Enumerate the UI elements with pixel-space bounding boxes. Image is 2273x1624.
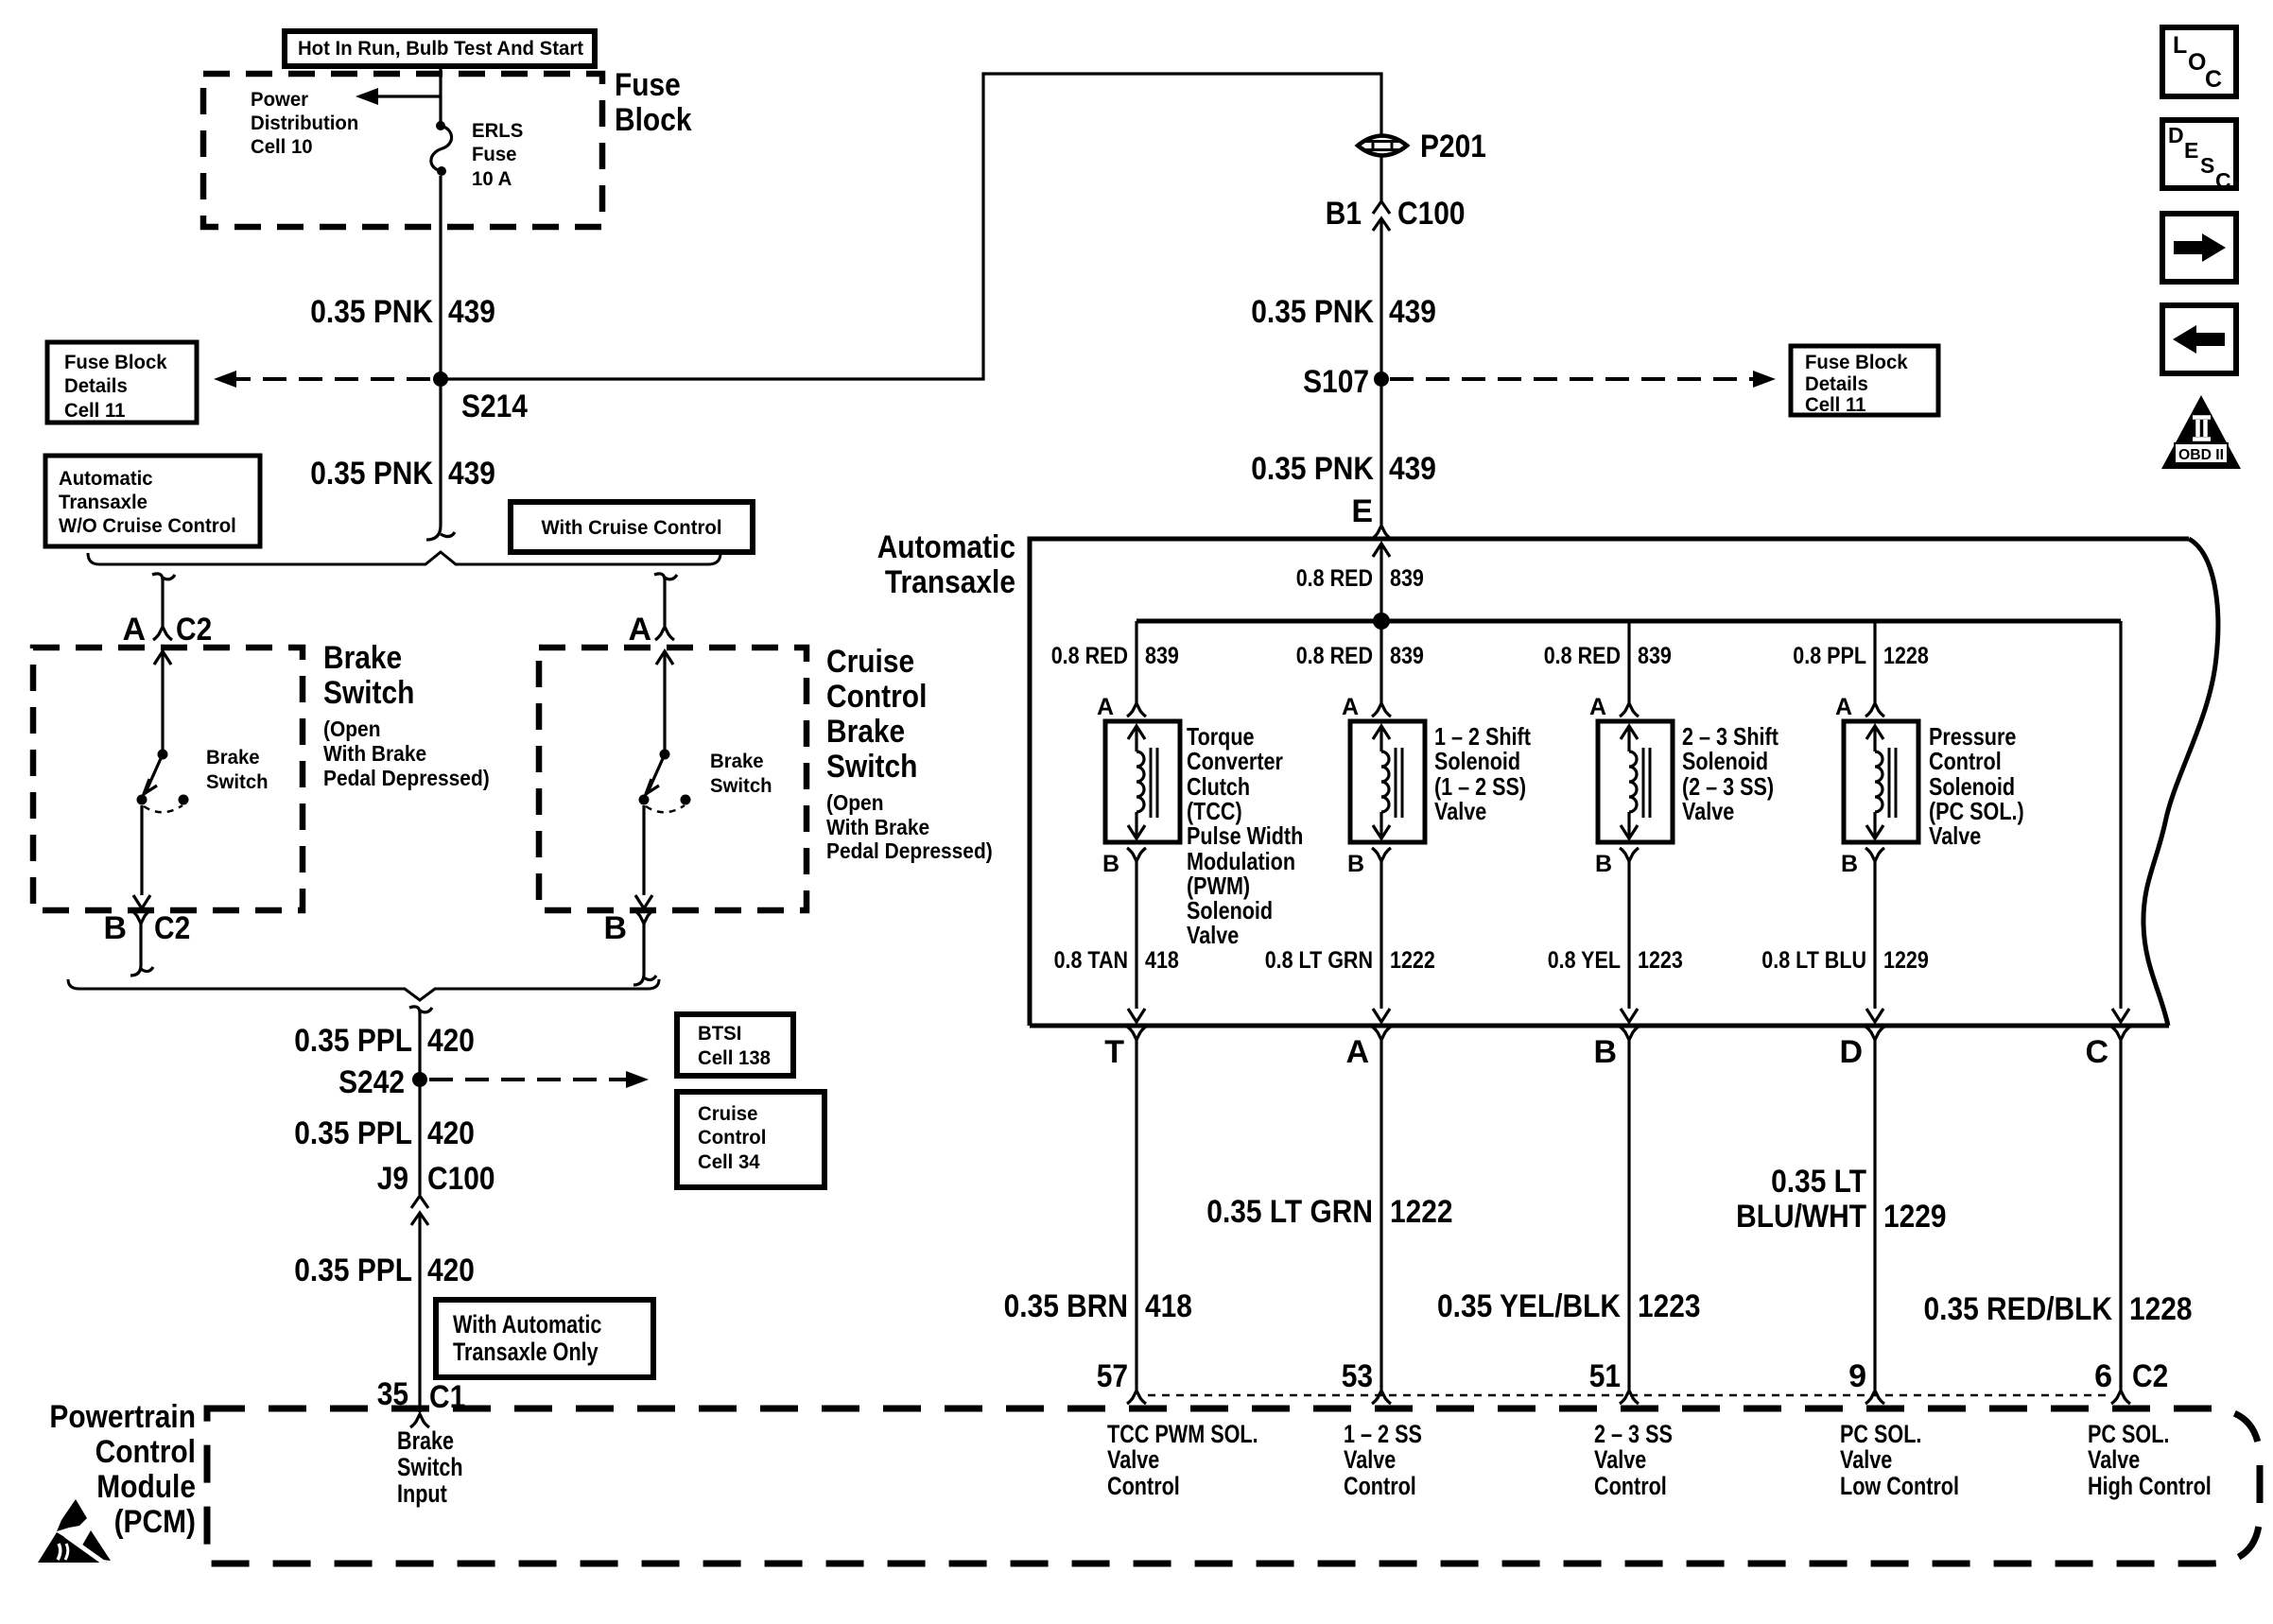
svg-text:Control: Control [1107,1472,1180,1500]
svg-text:B: B [603,910,627,946]
svg-text:Brake: Brake [323,640,402,676]
connector B (right) [603,910,653,946]
svg-text:Switch: Switch [826,749,917,785]
connector B (transaxle bottom) [1593,1027,1639,1070]
pin 51 [1589,1358,1639,1404]
svg-text:W/O Cruise Control: W/O Cruise Control [59,515,236,537]
icon: back arrow box [2162,305,2236,373]
label: Brake Switch Input [397,1426,463,1508]
wire: right branch bottom w/ hook [633,924,656,985]
box: With Cruise Control [511,502,753,552]
dashed ref arrow: S214 to Fuse Block Details [214,371,430,388]
svg-text:Control: Control [95,1434,196,1470]
svg-text:Brake: Brake [710,751,764,772]
automatic transaxle box [1030,539,2218,1026]
solenoid: TCC PWM valve [1105,721,1180,842]
brake switch (left): lower contact [137,795,147,805]
svg-text:418: 418 [1145,947,1179,974]
cruise brake switch: wire A-side w/ up arrow [656,651,673,750]
svg-text:Power: Power [251,89,308,111]
label: 0.8 PPL 1228 [1793,643,1929,669]
svg-text:Switch: Switch [710,775,772,797]
svg-text:0.35 PNK: 0.35 PNK [310,456,433,492]
svg-text:839: 839 [1390,643,1424,669]
wire: fuse to S214 [439,176,442,379]
svg-text:Valve: Valve [1344,1445,1396,1474]
svg-text:(PCM): (PCM) [114,1504,196,1540]
label: 2-3 SS Valve Control [1594,1420,1673,1500]
svg-text:Valve: Valve [1434,797,1486,825]
svg-text:Transaxle: Transaxle [59,492,147,513]
pin A (TCC) [1097,694,1146,720]
label: 0.8 LT BLU 1229 [1761,947,1929,974]
label: 0.35 RED/BLK 1228 [1924,1291,2193,1327]
svg-text:Valve: Valve [1187,921,1239,949]
brace: branch split [88,552,720,564]
desc: Torque Converter Clutch (TCC) PWM Solenoid Valve [1187,722,1303,949]
label: 0.8 RED 839 (1-2) [1296,643,1424,669]
brake switch (left): travel arc [144,805,182,812]
box: Fuse Block Details Cell 11 (right) [1791,346,1938,416]
svg-text:Valve: Valve [1107,1445,1159,1474]
svg-text:Switch: Switch [206,771,269,793]
wire: C100 to S107 [1379,218,1382,379]
connector pin 35 C1 [377,1376,466,1427]
svg-text:S107: S107 [1303,364,1369,400]
svg-text:C2: C2 [154,910,190,946]
brake switch (left): upper contact [158,750,168,760]
wire: S214 down to branch brace w/ hook [426,387,455,540]
svg-text:E: E [2184,138,2198,163]
svg-text:High Control: High Control [2088,1472,2212,1500]
svg-text:Converter: Converter [1187,747,1283,775]
label: Fuse Block [615,67,692,138]
connector A C2 (left) [122,612,212,648]
svg-text:Brake: Brake [206,747,260,769]
icon: forward arrow box [2162,214,2236,282]
dashed ref arrow: S107 to Fuse Block Details [1390,371,1776,388]
splice S107 [1303,364,1389,400]
label: 0.35 BRN 418 [1004,1288,1192,1324]
svg-text:1223: 1223 [1638,1288,1701,1324]
svg-text:With Cruise Control: With Cruise Control [542,517,722,539]
svg-text:10 A: 10 A [472,168,512,190]
svg-text:A: A [1345,1034,1369,1070]
svg-text:0.35 BRN: 0.35 BRN [1004,1288,1128,1324]
svg-text:Module: Module [96,1469,196,1505]
label: 0.8 LT GRN 1222 [1265,947,1435,974]
svg-text:S242: S242 [338,1064,405,1100]
svg-text:Control: Control [1594,1472,1667,1500]
brake switch (left): blade [147,754,163,790]
label: 0.35 PPL 420 (below S242) [294,1115,475,1151]
svg-text:Cell 138: Cell 138 [698,1047,771,1069]
pin B (2-3 SS) [1595,848,1639,877]
brake switch dashed box (left) [33,648,303,910]
svg-text:Valve: Valve [1594,1445,1646,1474]
label: 0.8 RED 839 (2-3) [1544,643,1672,669]
svg-text:1223: 1223 [1638,947,1683,974]
svg-text:Details: Details [64,375,128,397]
svg-text:Pulse Width: Pulse Width [1187,821,1303,850]
connector A (right) [628,612,674,648]
wire: C to PCM [2119,1040,2122,1390]
connector J9 C100 [377,1161,495,1225]
svg-text:Pedal Depressed): Pedal Depressed) [323,766,490,790]
svg-text:(Open: (Open [826,790,884,815]
svg-text:Brake: Brake [826,714,905,750]
pin B (1-2 SS) [1347,848,1391,877]
svg-text:Fuse Block: Fuse Block [64,352,167,373]
pin 9 [1848,1358,1884,1404]
cruise brake switch: travel arc [646,805,685,812]
svg-text:0.8 TAN: 0.8 TAN [1054,947,1128,974]
label: Brake Switch (inside left box) [206,747,269,793]
desc: 2-3 Shift Solenoid Valve [1682,722,1778,825]
cruise brake switch: travel dot [681,795,691,805]
wire: P201 to C100 [1379,157,1382,201]
svg-text:Valve: Valve [1929,821,1981,850]
svg-text:Brake: Brake [397,1426,454,1455]
svg-text:Cruise: Cruise [826,644,914,680]
pin B (PC SOL) [1841,848,1884,877]
svg-text:0.8 RED: 0.8 RED [1544,643,1621,669]
svg-text:439: 439 [448,456,495,492]
label: Automatic Transaxle [877,529,1015,600]
svg-text:0.8 YEL: 0.8 YEL [1548,947,1621,974]
solenoid: 1-2 shift valve [1350,721,1425,842]
svg-text:Control: Control [826,679,927,715]
svg-text:Control: Control [1929,747,2002,775]
label: PC SOL. Valve High Control [2088,1420,2212,1500]
dotted connector row line [1148,1394,2109,1397]
brake switch (left): travel dot [179,795,189,805]
splice S214 [433,371,528,424]
svg-text:0.8 RED: 0.8 RED [1296,565,1373,592]
svg-text:P201: P201 [1420,129,1486,164]
svg-text:C2: C2 [176,612,212,648]
cruise brake switch: blade [649,754,665,790]
label: 0.35 PNK 439 (above E) [1251,451,1436,487]
svg-text:839: 839 [1145,643,1179,669]
wire: left branch bottom w/ hook [130,924,153,976]
svg-text:1222: 1222 [1390,947,1435,974]
svg-text:C100: C100 [427,1161,495,1197]
svg-text:0.8 LT BLU: 0.8 LT BLU [1761,947,1866,974]
wire: A to PCM [1379,1040,1382,1390]
connector B C2 (left) [103,910,190,946]
svg-text:0.8 LT GRN: 0.8 LT GRN [1265,947,1373,974]
svg-text:S: S [2200,153,2214,178]
svg-text:Cruise: Cruise [698,1103,757,1125]
svg-text:A: A [628,612,651,648]
pin B (TCC) [1102,848,1146,877]
desc: 1-2 Shift Solenoid Valve [1434,722,1531,825]
svg-text:(Open: (Open [323,717,381,741]
svg-text:6: 6 [2094,1358,2112,1394]
label: 0.8 YEL 1223 [1548,947,1683,974]
title: Brake Switch [323,640,414,711]
label: 0.35 PNK 439 [310,294,495,330]
svg-text:With Automatic: With Automatic [453,1310,601,1339]
svg-text:B: B [1102,851,1119,877]
pin A (1-2 SS) [1342,694,1391,720]
label: 1-2 SS Valve Control [1344,1420,1422,1500]
svg-text:0.35 YEL/BLK: 0.35 YEL/BLK [1437,1288,1621,1324]
wire: bus to C exit w/ down arrow [2112,621,2129,1022]
svg-text:420: 420 [427,1023,475,1059]
svg-text:Automatic: Automatic [59,468,153,490]
PCM dashed box [207,1408,2260,1564]
wire: S214 to P201 run [441,74,1381,379]
wire: bus to PC SOL pin A [1873,621,1876,703]
svg-text:2 – 3 SS: 2 – 3 SS [1594,1420,1673,1448]
wire: TCC B to box edge w/ down arrow [1128,861,1145,1022]
svg-text:A: A [1342,694,1359,720]
svg-text:Cell 34: Cell 34 [698,1151,760,1173]
svg-text:1229: 1229 [1883,947,1929,974]
cruise brake switch: blade arrowhead [646,779,659,794]
label: 0.35 PNK 439 below S214 [310,456,495,492]
svg-text:L: L [2173,32,2187,59]
svg-text:0.8 PPL: 0.8 PPL [1793,643,1866,669]
grommet P201 [1358,129,1486,164]
wire: S107 to E [1379,387,1382,525]
svg-text:A: A [1589,694,1606,720]
brace: branch merge [68,979,659,1000]
svg-text:C: C [2215,168,2231,193]
svg-text:439: 439 [448,294,495,330]
svg-text:Fuse: Fuse [615,67,681,103]
svg-text:TCC PWM SOL.: TCC PWM SOL. [1107,1420,1258,1448]
label: 0.35 PPL 420 (below C100) [294,1253,475,1288]
svg-text:OBD II: OBD II [2178,447,2224,463]
svg-text:Solenoid: Solenoid [1434,747,1520,775]
cruise brake switch: wire B-side w/ down arrow [635,805,652,908]
wire: S242 to J9 [418,1087,421,1195]
svg-text:1222: 1222 [1390,1194,1453,1230]
brake switch (left): wire A-side w/ up arrow [154,651,171,750]
label: ERLS Fuse 10 A [472,120,523,190]
wire: bus to 2-3 SS pin A [1627,621,1630,703]
svg-text:C: C [2085,1034,2108,1070]
svg-text:B: B [1593,1034,1617,1070]
box: Automatic Transaxle W/O Cruise Control [45,456,260,546]
svg-text:Control: Control [1344,1472,1416,1500]
svg-text:Powertrain: Powertrain [49,1399,196,1435]
svg-text:A: A [1097,694,1114,720]
svg-text:B: B [1841,851,1858,877]
pin 6 C2 [2094,1358,2168,1404]
svg-text:Distribution: Distribution [251,112,358,134]
label: 0.35 LT BLU/WHT 1229 [1736,1164,1946,1235]
connector E [1351,493,1391,539]
arrow: to Power Distribution [356,88,441,105]
wire: merge to S242 w/ curl [409,1007,432,1080]
caption: (Open With Brake Pedal Depressed) [323,717,490,790]
svg-text:9: 9 [1848,1358,1866,1394]
svg-text:0.35 PPL: 0.35 PPL [294,1023,412,1059]
wire: left branch top w/ curl [152,574,175,626]
svg-text:Cell 11: Cell 11 [64,400,126,422]
svg-text:J9: J9 [377,1161,408,1197]
svg-text:Cell 11: Cell 11 [1805,394,1866,416]
svg-text:A: A [122,612,146,648]
svg-text:420: 420 [427,1253,475,1288]
label: Brake Switch (inside right box) [710,751,772,797]
desc: Pressure Control Solenoid Valve [1929,722,2024,850]
caption: (Open With Brake Pedal Depressed) right [826,790,993,863]
svg-text:B: B [103,910,127,946]
connector T [1104,1027,1146,1070]
title: Cruise Control Brake Switch [826,644,927,785]
icon: LOC box [2162,27,2236,96]
svg-text:0.35 LT GRN: 0.35 LT GRN [1206,1194,1373,1230]
svg-text:Valve: Valve [1682,797,1734,825]
wire: hot feed into fuse block [439,66,442,124]
svg-text:Switch: Switch [323,675,414,711]
dashed ref arrow: S242 to BTSI [429,1071,649,1088]
svg-text:439: 439 [1389,451,1436,487]
svg-text:S214: S214 [461,389,528,424]
junction: bus at E [1373,613,1390,630]
ESD symbol [38,1499,111,1564]
svg-text:Details: Details [1805,373,1868,395]
svg-text:C2: C2 [2132,1358,2168,1394]
wire: 1-2 B to box edge w/ down arrow [1373,861,1390,1022]
connector D [1839,1027,1884,1070]
label: TCC PWM SOL. Valve Control [1107,1420,1258,1500]
box: Fuse Block Details Cell 11 (left) [47,342,197,423]
wire: B to PCM [1627,1040,1630,1390]
fuse ERLS 10 A [431,121,452,176]
svg-text:Fuse Block: Fuse Block [1805,352,1908,373]
label: 0.8 RED 839 (E drop) [1296,565,1424,592]
pin 57 [1097,1358,1146,1404]
brake switch (left): blade arrowhead [144,779,157,794]
solenoid: pressure control valve [1844,721,1918,842]
wire: bus to TCC pin A [1135,621,1137,703]
svg-text:B1: B1 [1326,196,1362,232]
label: 0.35 LT GRN 1222 [1206,1194,1452,1230]
svg-text:0.35 LT: 0.35 LT [1771,1164,1866,1200]
svg-text:0.35 PNK: 0.35 PNK [1251,451,1374,487]
connector B1 C100 [1326,196,1466,232]
svg-text:D: D [1839,1034,1863,1070]
svg-text:Valve: Valve [2088,1445,2140,1474]
svg-text:Transaxle Only: Transaxle Only [453,1338,599,1366]
svg-text:418: 418 [1145,1288,1192,1324]
svg-text:420: 420 [427,1115,475,1151]
icon: DESC box [2162,120,2236,193]
connector A (transaxle bottom) [1345,1027,1391,1070]
svg-text:1228: 1228 [1883,643,1929,669]
svg-text:D: D [2168,123,2184,147]
label: 0.8 RED 839 (TCC) [1051,643,1179,669]
svg-text:Control: Control [698,1127,766,1149]
svg-text:839: 839 [1638,643,1672,669]
splice S242 [338,1064,427,1100]
label: 0.35 YEL/BLK 1223 [1437,1288,1701,1324]
svg-text:T: T [1104,1034,1124,1070]
cruise brake switch: lower contact [639,795,650,805]
label: 0.35 PNK 439 (right top) [1251,294,1436,330]
connector C [2085,1027,2130,1070]
wire: T to PCM [1135,1040,1137,1390]
svg-text:Pedal Depressed): Pedal Depressed) [826,838,993,863]
svg-text:Valve: Valve [1840,1445,1892,1474]
svg-text:Input: Input [397,1479,447,1508]
wire: bus to 1-2 SS pin A [1379,621,1382,703]
svg-text:Hot In Run, Bulb Test And Star: Hot In Run, Bulb Test And Start [298,38,583,60]
label: Powertrain Control Module (PCM) [49,1399,196,1540]
cruise brake switch: upper contact [660,750,670,760]
box: Hot In Run, Bulb Test And Start [285,31,595,66]
wire: right branch top w/ curl [654,574,677,626]
cruise control brake switch dashed box [539,648,807,910]
label: Power Distribution Cell 10 [251,89,358,158]
svg-text:1 – 2 SS: 1 – 2 SS [1344,1420,1422,1448]
svg-text:0.35 PPL: 0.35 PPL [294,1115,412,1151]
pin A (PC SOL) [1835,694,1884,720]
fuse block dashed box [203,74,602,227]
svg-text:Cell 10: Cell 10 [251,136,313,158]
svg-text:57: 57 [1097,1358,1128,1394]
svg-text:0.35 PPL: 0.35 PPL [294,1253,412,1288]
label: PC SOL. Valve Low Control [1840,1420,1959,1500]
svg-text:C: C [2205,66,2222,93]
svg-text:839: 839 [1390,565,1424,592]
svg-text:Solenoid: Solenoid [1682,747,1768,775]
svg-text:Automatic: Automatic [877,529,1015,565]
solenoid: 2-3 shift valve [1598,721,1673,842]
wire: D to PCM [1873,1040,1876,1390]
svg-text:439: 439 [1389,294,1436,330]
svg-text:1228: 1228 [2129,1291,2193,1327]
wire: C100 to pin 35 [418,1213,421,1412]
wire: 2-3 B to box edge w/ down arrow [1621,861,1638,1022]
svg-text:B: B [1595,851,1612,877]
svg-text:C100: C100 [1397,196,1466,232]
svg-text:0.35 PNK: 0.35 PNK [1251,294,1374,330]
svg-text:Low Control: Low Control [1840,1472,1959,1500]
svg-text:51: 51 [1589,1358,1621,1394]
svg-text:0.8 RED: 0.8 RED [1051,643,1128,669]
svg-text:O: O [2188,49,2206,76]
icon: OBD II triangle [2161,395,2241,469]
svg-text:Switch: Switch [397,1453,463,1481]
label: 0.35 PPL 420 [294,1023,475,1059]
svg-text:With Brake: With Brake [826,815,929,839]
svg-text:Fuse: Fuse [472,144,517,165]
svg-text:ERLS: ERLS [472,120,523,142]
svg-text:E: E [1351,493,1373,529]
wire: PC B to box edge w/ down arrow [1866,861,1883,1022]
label: 0.8 TAN 418 [1054,947,1179,974]
svg-text:0.8 RED: 0.8 RED [1296,643,1373,669]
svg-text:1229: 1229 [1883,1199,1947,1235]
wire: E into box w/ up arrow [1373,544,1390,621]
svg-text:With Brake: With Brake [323,741,426,766]
svg-text:PC SOL.: PC SOL. [1840,1420,1921,1448]
box: Cruise Control Cell 34 [677,1092,824,1187]
pin A (2-3 SS) [1589,694,1639,720]
svg-text:A: A [1835,694,1852,720]
svg-text:Block: Block [615,102,692,138]
svg-text:BLU/WHT: BLU/WHT [1736,1199,1866,1235]
svg-text:PC SOL.: PC SOL. [2088,1420,2169,1448]
svg-text:B: B [1347,851,1364,877]
